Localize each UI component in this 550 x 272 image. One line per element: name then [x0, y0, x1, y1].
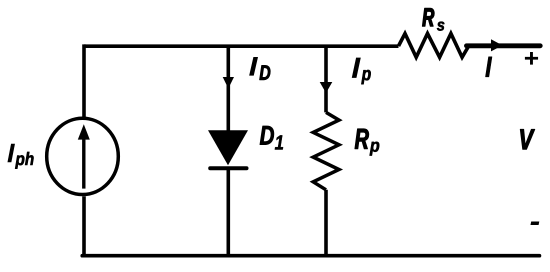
label Rp [355, 129, 369, 149]
wire diode branch upper [227, 46, 231, 133]
label V [520, 129, 534, 149]
resistor Rs zigzag [399, 34, 469, 58]
wire Rp branch upper [324, 46, 328, 112]
wire top horizontal [84, 44, 399, 48]
label Ip [352, 58, 361, 78]
label Iph [7, 144, 14, 163]
wire diode branch lower [227, 169, 231, 256]
label plus [525, 52, 538, 65]
arrow ID [223, 77, 234, 89]
wire bottom horizontal [82, 254, 539, 258]
arrow I on output wire [491, 39, 503, 51]
label ID [249, 57, 258, 76]
wire left vertical upper [82, 44, 86, 117]
label minus [530, 222, 539, 225]
label I output [486, 57, 492, 77]
label Rs [422, 8, 434, 26]
diode D1 triangle [208, 130, 248, 165]
current source Iph circle [47, 118, 119, 194]
current source arrow head [78, 124, 90, 139]
wire output thick [467, 43, 541, 48]
label D1 [260, 126, 274, 145]
arrow Ip [320, 82, 333, 93]
wire left vertical lower [82, 196, 86, 255]
resistor Rp zigzag [313, 112, 339, 189]
diode D1 cathode bar [210, 166, 246, 170]
wire Rp branch lower [324, 190, 328, 256]
current source arrow shaft [82, 137, 85, 189]
